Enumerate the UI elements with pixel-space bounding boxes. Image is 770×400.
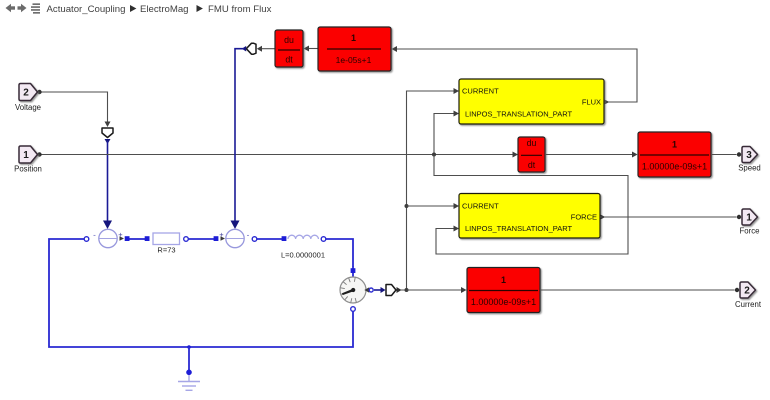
derivative block DU1 du/dt (275, 30, 303, 67)
svg-text:Voltage: Voltage (15, 103, 41, 112)
svg-text:LINPOS_TRANSLATION_PART: LINPOS_TRANSLATION_PART (465, 224, 573, 233)
terminal circle sensor bottom (351, 307, 356, 312)
physical wire CV2 to source V2 (235, 49, 244, 221)
svg-text:L=0.0000001: L=0.0000001 (281, 251, 325, 260)
navy input arrow into source V2 (231, 221, 240, 230)
wire arrow into Speed (737, 152, 741, 156)
svg-text:CURRENT: CURRENT (462, 87, 499, 96)
terminal square V1 right (125, 236, 130, 241)
svg-text:FMU from Flux: FMU from Flux (208, 4, 272, 15)
wire current signal vertical (398, 91, 455, 290)
wire arrow into derivative DU2 (513, 152, 519, 158)
FORCE output port arrow (601, 215, 606, 220)
wire Position line (40, 154, 514, 156)
transfer fcn TF3 1/(1.00000e-09s+1) (467, 268, 540, 313)
wire resistor to source V2 (187, 238, 214, 240)
svg-text:CURRENT: CURRENT (462, 202, 499, 211)
sensor PS output arrow (364, 287, 369, 292)
wire arrow into DU1 right side (304, 46, 310, 52)
svg-text:1: 1 (672, 139, 677, 149)
wire arrow into FMU2 LINPOS (454, 226, 460, 232)
junction position branch (432, 153, 436, 157)
wire TF1 to derivative DU1 (309, 48, 319, 50)
svg-text:FLUX: FLUX (582, 98, 601, 107)
terminal circle V1 left (84, 237, 89, 242)
outport 3 Speed (742, 147, 758, 163)
breadcrumb separator 1 (130, 5, 136, 12)
wire source V1 plus to resistor (129, 238, 145, 240)
blue arrow into converter CV3 (381, 287, 386, 293)
physical wire CV1 to source V1 (107, 141, 109, 221)
terminal square resistor left (145, 236, 150, 241)
derivative block DU2 du/dt (518, 137, 545, 172)
outport 2 Current (740, 282, 756, 298)
ground symbol (178, 375, 200, 390)
breadcrumb separator 2 (197, 5, 203, 12)
port dot Voltage (37, 90, 41, 94)
FMU block 1 (FLUX) (459, 79, 604, 124)
transfer fcn TF2 1/(1.00000e-09s+1) (638, 132, 711, 177)
inductor L1 coil (288, 235, 318, 239)
svg-text:LINPOS_TRANSLATION_PART: LINPOS_TRANSLATION_PART (465, 110, 573, 119)
svg-text:Position: Position (14, 165, 42, 174)
black output arrow of CV3 (397, 287, 402, 293)
terminal circle resistor right (184, 237, 189, 242)
ground node dot (186, 370, 192, 376)
current direction arrow at V2 (221, 236, 226, 240)
wire TF3 to Current outport (540, 289, 735, 291)
wire Voltage to converter (40, 92, 108, 122)
FMU block 2 (FORCE) (459, 194, 600, 239)
wire stub into sensor top (352, 266, 354, 278)
svg-text:2: 2 (23, 88, 29, 99)
physical wire sensor to converter CV3 (374, 289, 381, 291)
blue arrow under converter CV1 (105, 139, 111, 144)
wire arrow into TF2 (632, 152, 638, 158)
svg-text:Force: Force (740, 227, 760, 236)
voltage source V2 (219, 229, 249, 247)
svg-text:dt: dt (528, 160, 536, 170)
wire arrow into FMU1 LINPOS (454, 111, 460, 117)
terminal circle V2 right (252, 237, 257, 242)
svg-text:1: 1 (501, 275, 506, 285)
svg-text:1: 1 (351, 33, 356, 43)
wire arrow into FMU2 CURRENT (454, 203, 460, 209)
svg-text:du: du (284, 35, 294, 45)
svg-text:-: - (247, 231, 250, 240)
svg-text:Speed: Speed (738, 164, 761, 173)
wire arrow into TF1 right side (392, 46, 398, 52)
wire current branch to FMU2 CURRENT (407, 205, 455, 207)
ground junction on bottom wire (187, 345, 191, 349)
voltage source V1 (93, 229, 123, 247)
svg-text:2: 2 (744, 286, 750, 297)
wire arrow into Force (737, 215, 741, 219)
svg-text:3: 3 (746, 150, 752, 161)
wire position branch routing to LINPOS of FMU2 (434, 155, 628, 255)
svg-text:dt: dt (285, 55, 293, 65)
wire arrow into FMU1 CURRENT (454, 88, 460, 94)
converter CV2 Simulink-PS (pointing left) (246, 43, 256, 54)
breadcrumb forward arrow icon (18, 4, 27, 12)
navy input arrow into source V1 (103, 221, 112, 230)
wire FORCE to Force outport (600, 216, 737, 218)
svg-text:1: 1 (23, 150, 29, 161)
svg-text:du: du (527, 138, 537, 148)
blue arrow at CV2 output (242, 46, 246, 52)
wire arrow into Current (735, 288, 739, 292)
junction current to FMU2 (405, 204, 409, 208)
wire source V2 minus to inductor (256, 238, 282, 240)
wire position branch to LINPOS of FMU1 (434, 114, 455, 155)
svg-text:1.00000e-09s+1: 1.00000e-09s+1 (471, 297, 536, 307)
current direction arrow at V1 (120, 236, 125, 240)
FLUX output port arrow (605, 100, 610, 105)
terminal square V2 left (214, 236, 219, 241)
svg-text:FORCE: FORCE (571, 213, 597, 222)
wire current to filter TF3 (407, 289, 462, 291)
svg-text:1.00000e-09s+1: 1.00000e-09s+1 (642, 162, 707, 172)
resistor R1 body (153, 233, 180, 245)
inport 2 Voltage (19, 84, 38, 101)
svg-text:ElectroMag: ElectroMag (140, 4, 189, 15)
wire inductor to sensor (325, 239, 353, 267)
sensor PS port circle (369, 288, 373, 292)
ground stem wire (188, 347, 190, 370)
current sensor gauge (340, 277, 366, 303)
electrical loop left and bottom wire (49, 239, 353, 347)
svg-text:Actuator_Coupling: Actuator_Coupling (47, 4, 126, 15)
converter CV1 Simulink-PS (pointing down) (102, 128, 113, 138)
svg-text:1: 1 (746, 213, 752, 224)
junction current at converter output (405, 288, 409, 292)
wire arrow into TF3 (461, 287, 467, 293)
transfer fcn TF1 1/(1e-05s+1) (318, 27, 391, 71)
terminal circle inductor right (321, 237, 326, 242)
breadcrumb list icon (31, 3, 40, 13)
svg-text:1e-05s+1: 1e-05s+1 (336, 55, 372, 65)
port dot Position (37, 152, 41, 156)
wire DU1 to converter CV2 (261, 48, 275, 50)
svg-text:Current: Current (735, 300, 762, 309)
wire arrow into converter CV1 (105, 122, 111, 128)
wire DU2 to TF2 (545, 154, 633, 156)
svg-text:-: - (93, 231, 96, 240)
wire TF2 to Speed outport (711, 154, 737, 156)
converter CV3 PS-Simulink (pointing right) (386, 285, 396, 296)
breadcrumb back arrow icon (6, 4, 16, 12)
wire arrow into converter CV2 (257, 46, 262, 52)
terminal square sensor top (351, 268, 356, 273)
outport 1 Force (742, 209, 758, 225)
svg-text:R=73: R=73 (157, 246, 175, 255)
wire FLUX feedback (397, 49, 638, 102)
terminal square inductor left (282, 236, 287, 241)
inport 1 Position (19, 146, 38, 163)
